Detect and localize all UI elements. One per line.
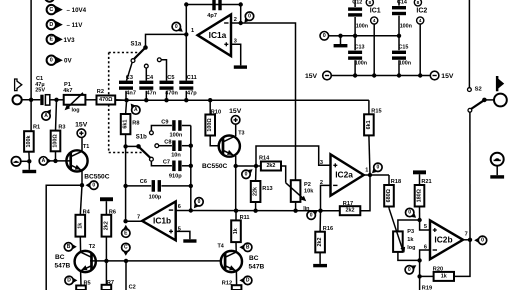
dashed coupling S1 corner	[109, 53, 144, 153]
pin6 wire IC2b	[420, 250, 430, 276]
partial marker cut at top edge	[45, 0, 54, 2]
node A marker at T1 base	[46, 158, 52, 165]
svg-text:100n: 100n	[356, 24, 368, 30]
IC1 pin8 circle	[366, 0, 373, 6]
pin1 wire IC2a output	[364, 174, 370, 176]
node E net label	[47, 35, 75, 44]
wire T2 emitter to R5	[80, 271, 82, 285]
junction C6 left	[123, 184, 127, 188]
junction R20 node	[417, 274, 421, 278]
node 0 marker at R20 node	[409, 265, 416, 271]
svg-text:R15: R15	[371, 109, 381, 115]
svg-text:R12: R12	[222, 280, 232, 286]
svg-text:B: B	[246, 245, 250, 251]
wire R2 to cap bus	[115, 99, 126, 101]
svg-text:IC1b: IC1b	[153, 216, 171, 226]
svg-text:7: 7	[465, 232, 468, 238]
wire IC1a feedback top	[184, 2, 243, 6]
svg-text:IC2: IC2	[416, 8, 427, 15]
terminal -15V left	[305, 71, 331, 80]
svg-text:– 10V4: – 10V4	[67, 7, 87, 14]
svg-text:C12: C12	[352, 0, 362, 6]
wire P3 bottom to pin6 node	[398, 252, 422, 263]
node E marker	[122, 225, 129, 231]
resistor R20 1k	[420, 240, 470, 281]
svg-text:547B: 547B	[249, 263, 265, 270]
svg-text:1: 1	[191, 28, 194, 34]
resistor R14 2k2	[259, 156, 281, 171]
svg-text:3: 3	[320, 160, 323, 166]
potentiometer P1 4k7 log	[63, 82, 85, 113]
svg-text:IC2b: IC2b	[434, 234, 452, 244]
resistor R5	[76, 280, 90, 290]
wire C6 right	[161, 185, 190, 187]
svg-text:25V: 25V	[35, 88, 45, 94]
capacitor C1 47u 25V	[35, 76, 50, 105]
node 0 marker at IC1a pin1	[176, 25, 183, 31]
terminal -15V right	[430, 71, 454, 80]
pin7 wire IC2b output	[463, 239, 470, 241]
node 0 marker at T1 emitter	[86, 182, 92, 189]
svg-text:4n7: 4n7	[126, 91, 136, 97]
svg-text:0: 0	[323, 33, 326, 39]
svg-text:0: 0	[408, 267, 411, 273]
potentiometer P2 10k lin	[291, 180, 314, 212]
svg-text:4k7: 4k7	[63, 88, 72, 94]
svg-text:C8: C8	[164, 140, 171, 146]
wire net A to T1 base	[50, 160, 69, 162]
contact S1b-C9	[150, 126, 172, 135]
junction IC1b pin7	[123, 219, 127, 223]
resistor R7	[102, 261, 114, 290]
wire C6 left	[126, 185, 152, 187]
svg-text:C9: C9	[161, 119, 168, 125]
svg-text:1k: 1k	[407, 237, 414, 243]
svg-text:100p: 100p	[149, 195, 162, 201]
svg-text:C7: C7	[163, 160, 170, 166]
wire input terminal to node	[22, 98, 41, 102]
svg-text:180Ω: 180Ω	[417, 188, 423, 202]
contact S1a-C5	[157, 58, 166, 81]
svg-text:100n: 100n	[400, 24, 412, 30]
svg-text:910p: 910p	[169, 174, 182, 180]
contact S1b-C8	[155, 144, 172, 148]
svg-text:IC2a: IC2a	[335, 170, 353, 180]
wire T1 emitter node left and down	[46, 185, 82, 290]
svg-text:R11: R11	[240, 215, 250, 221]
svg-text:100Ω: 100Ω	[53, 134, 59, 148]
svg-text:100Ω: 100Ω	[207, 118, 213, 132]
svg-text:C5: C5	[167, 75, 174, 81]
svg-text:C: C	[49, 7, 53, 13]
op-amp IC1a	[198, 15, 231, 57]
contact S1b-C7 lever tip	[150, 157, 172, 166]
svg-text:C4: C4	[146, 75, 154, 81]
capacitor C3' 4p7 feedback	[207, 0, 221, 19]
svg-text:10k: 10k	[304, 189, 314, 195]
svg-text:R4: R4	[83, 210, 91, 216]
wire R18 to P3 wiper	[389, 207, 405, 253]
transistor T4 BC547B	[221, 251, 242, 272]
svg-text:R6: R6	[109, 210, 116, 216]
capacitor C7 910p	[163, 160, 182, 180]
svg-text:R2: R2	[97, 89, 104, 95]
contact S1a-C3	[131, 59, 135, 63]
node C net label	[47, 5, 87, 14]
svg-text:C3: C3	[126, 75, 133, 81]
resistor R17 2k2	[321, 175, 371, 215]
svg-text:R19: R19	[422, 285, 432, 290]
svg-text:BC550C: BC550C	[202, 163, 228, 170]
svg-text:100n: 100n	[170, 133, 183, 139]
svg-text:100k: 100k	[26, 135, 32, 147]
svg-text:S1b: S1b	[136, 134, 147, 140]
junction T1 emitter	[80, 183, 84, 187]
rail bar above R21	[413, 170, 426, 174]
pin7 wire IC1b	[126, 220, 143, 222]
svg-text:7: 7	[137, 214, 140, 220]
node A marker at C1 output	[45, 109, 51, 116]
chassis terminal left	[11, 157, 20, 166]
svg-text:100n: 100n	[355, 61, 367, 67]
svg-text:8: 8	[417, 0, 420, 5]
svg-text:6: 6	[424, 245, 427, 251]
svg-text:R18: R18	[391, 179, 401, 185]
contact S2 upper	[468, 88, 472, 92]
capacitor C15 100n	[392, 36, 411, 76]
svg-text:C15: C15	[399, 44, 409, 50]
junction IC2a output	[368, 173, 372, 177]
ground under chassis terminal	[490, 166, 504, 179]
svg-text:log: log	[407, 245, 415, 251]
pin2 wire IC2a	[321, 185, 331, 210]
output arrow symbol	[496, 76, 504, 91]
svg-text:D: D	[67, 278, 71, 284]
svg-text:IC1: IC1	[370, 8, 381, 15]
svg-text:4p7: 4p7	[207, 13, 217, 19]
svg-text:547B: 547B	[55, 262, 71, 269]
transistor T1 BC550C	[66, 150, 87, 171]
svg-text:0V: 0V	[64, 58, 72, 65]
svg-text:P2: P2	[304, 182, 311, 188]
svg-text:3: 3	[234, 39, 237, 45]
svg-text:2: 2	[234, 17, 237, 23]
pin5 wire IC1b to ground	[176, 231, 190, 239]
transistor T2 BC547B	[75, 251, 96, 272]
svg-text:0: 0	[50, 57, 53, 63]
svg-text:47p: 47p	[187, 91, 197, 97]
supply +15V terminal above T3	[229, 108, 242, 124]
minus glyph IC1a	[224, 22, 228, 24]
resistor R13 22k	[251, 166, 273, 211]
capacitor C9 100n	[161, 119, 183, 138]
wire IC1a output right and down to P2	[253, 23, 296, 180]
wire S2 upper	[468, 0, 470, 88]
svg-text:S2: S2	[475, 87, 482, 93]
resistor R3 100R	[51, 100, 66, 161]
wire left vertical to pin1	[185, 5, 187, 35]
svg-text:C11: C11	[187, 75, 197, 81]
svg-text:IC1a: IC1a	[209, 30, 227, 40]
svg-text:D: D	[246, 278, 250, 284]
svg-text:BC550C: BC550C	[84, 174, 110, 181]
0V rail wire	[341, 34, 402, 38]
svg-text:470Ω: 470Ω	[99, 97, 113, 103]
svg-text:– 11V: – 11V	[67, 22, 84, 29]
junction R13 top node	[254, 164, 258, 168]
resistor R1 100k	[24, 100, 40, 162]
node 0 marker at IC2a output	[372, 167, 379, 174]
capacitor C4 47n	[139, 75, 156, 96]
node 0 marker at IC2a pin2 node	[311, 210, 318, 216]
svg-text:R17: R17	[343, 201, 353, 207]
svg-text:log: log	[72, 108, 80, 114]
resistor R16 2k2	[315, 211, 333, 253]
svg-text:R20: R20	[433, 267, 443, 273]
wire contact to C3	[127, 62, 133, 80]
wire T1 emitter to R4	[80, 185, 82, 215]
svg-text:8: 8	[369, 0, 372, 5]
wire 15V to T1 collector	[81, 138, 83, 152]
svg-text:P3: P3	[407, 229, 414, 235]
svg-text:4: 4	[373, 18, 376, 23]
node 0 marker at IC1b pin6	[194, 202, 200, 209]
wire R4 to T2 collector	[79, 237, 81, 252]
svg-text:2k2: 2k2	[317, 238, 323, 247]
junction IC1b pin6	[189, 208, 193, 212]
svg-text:6k1: 6k1	[123, 120, 129, 129]
resistor R12	[222, 280, 242, 290]
svg-text:0: 0	[175, 24, 178, 30]
wire 15V to T3 collector	[235, 124, 237, 136]
ground at 0V rail	[340, 36, 342, 44]
node D marker at T4 emitter	[239, 277, 245, 284]
potentiometer P3 1k log	[393, 229, 415, 252]
svg-text:A: A	[42, 158, 46, 164]
pin6 wire IC1b to node	[176, 210, 191, 212]
pin5 wire IC2b	[420, 220, 430, 230]
svg-text:15V: 15V	[229, 108, 242, 115]
svg-text:22k: 22k	[253, 187, 259, 196]
svg-text:2k2: 2k2	[266, 163, 275, 169]
svg-text:0: 0	[248, 13, 251, 19]
svg-text:R16: R16	[323, 226, 333, 232]
svg-text:15V: 15V	[441, 73, 454, 80]
plus glyph IC1a	[224, 43, 228, 45]
svg-text:0: 0	[245, 172, 248, 178]
wire emitter node to R14	[236, 165, 261, 167]
junction R8 bottom S1b	[123, 144, 127, 148]
wire IC1a output up to feedback	[240, 5, 242, 24]
ground IC1a pin3	[234, 65, 247, 68]
svg-text:6: 6	[178, 204, 181, 210]
wire chassis to ground node	[21, 159, 32, 163]
switch S1a	[131, 42, 148, 59]
svg-text:0: 0	[92, 182, 95, 188]
junction R13 bottom	[253, 209, 257, 213]
junction IC2b output	[468, 238, 472, 242]
plus glyph IC2a	[333, 164, 337, 166]
node 0 marker at T3 emitter node	[246, 169, 253, 175]
wire S1a common up to IC1a input	[146, 34, 187, 47]
node 0 marker at IC2b pin5 node	[409, 211, 416, 217]
svg-text:1k: 1k	[233, 228, 239, 234]
wire T2 base line to T4 base	[90, 259, 221, 263]
node 0 marker at IC2b output	[474, 237, 480, 244]
cap bank bus wire	[115, 91, 369, 103]
svg-text:A: A	[44, 113, 48, 119]
chassis terminal right	[491, 153, 504, 166]
resistor R8 6k1	[121, 100, 140, 146]
op-amp IC2b	[430, 220, 463, 259]
minus glyph IC2a	[333, 184, 337, 186]
capacitor C8 10n	[164, 140, 181, 159]
resistor R10 100R	[205, 100, 221, 146]
resistor R15 6k1	[364, 100, 381, 175]
IC1 pin4 circle	[371, 17, 378, 76]
wire S2 lower to IC2b output	[469, 112, 471, 240]
IC2 pin8 circle	[414, 0, 421, 6]
node 0 marker at IC1a output	[244, 16, 250, 23]
svg-text:C6: C6	[140, 179, 147, 185]
op-amp IC1b	[142, 202, 176, 241]
svg-text:R3: R3	[58, 125, 65, 131]
wire contact to C4	[145, 68, 147, 81]
junction R3 bottom at T1 base	[53, 159, 57, 163]
capacitor C14 100n	[392, 0, 412, 36]
capacitor C3 4n7	[119, 75, 136, 96]
svg-text:BC: BC	[55, 254, 65, 261]
ground under R1	[28, 161, 30, 170]
svg-text:R1: R1	[33, 125, 40, 131]
svg-text:47n: 47n	[147, 91, 157, 97]
wire cap column right	[182, 126, 193, 211]
svg-text:15V: 15V	[75, 121, 88, 128]
svg-text:T1: T1	[83, 144, 89, 150]
terminal 0V	[320, 32, 341, 41]
wire input column up	[30, 0, 32, 100]
wire T3 emitter down to feedback node	[234, 156, 238, 211]
pin3 wire IC1a	[231, 44, 241, 65]
resistor R18 680R	[370, 175, 401, 207]
wire T1 emitter down	[81, 171, 83, 186]
resistor R2 470R	[97, 89, 116, 104]
node A marker at R8 top	[131, 104, 137, 111]
plus glyph IC1b	[169, 230, 173, 232]
junction IC2a pin2 node	[318, 209, 322, 213]
svg-text:0: 0	[408, 210, 411, 216]
svg-text:6k1: 6k1	[366, 120, 372, 129]
minus glyph IC2b	[433, 249, 437, 251]
capacitor C6 100p	[140, 179, 162, 200]
svg-text:0: 0	[198, 199, 201, 205]
capacitor C12 100n	[348, 0, 368, 36]
svg-text:10n: 10n	[171, 152, 181, 158]
plus glyph IC2b	[433, 229, 437, 231]
contact S1a-C4	[144, 64, 148, 68]
wire IC1b pin6 node to IC2a pin2 node	[191, 210, 321, 212]
resistor R4 1k	[76, 210, 91, 237]
junction IC1a pin1	[184, 32, 188, 36]
svg-text:100n: 100n	[399, 61, 411, 67]
node 0 net label	[47, 56, 73, 65]
switch S2 lever	[468, 98, 494, 113]
op-amp IC2a	[331, 154, 364, 195]
wire P2 bottom to node	[293, 202, 297, 213]
resistor R11 1k	[231, 211, 249, 252]
svg-text:E: E	[49, 37, 53, 43]
svg-text:2k2: 2k2	[103, 221, 109, 230]
svg-text:S1a: S1a	[131, 42, 142, 48]
node D marker at T2 emitter	[72, 277, 78, 284]
svg-text:15V: 15V	[305, 73, 318, 80]
svg-text:R7: R7	[107, 280, 114, 286]
negative 15V rail	[331, 73, 430, 77]
resistor R6 2k2	[102, 201, 116, 261]
svg-text:0: 0	[377, 165, 380, 171]
svg-text:1V3: 1V3	[64, 37, 76, 44]
minus glyph IC1b	[169, 209, 173, 211]
svg-text:C14: C14	[397, 0, 407, 6]
wire P1 to R2	[85, 99, 96, 101]
svg-text:C13: C13	[355, 44, 365, 50]
svg-text:T3: T3	[238, 131, 244, 137]
svg-text:D: D	[49, 22, 53, 28]
node C marker	[122, 250, 129, 256]
svg-text:0: 0	[310, 212, 313, 218]
node B marker at T2 collector	[71, 243, 77, 250]
svg-text:R14: R14	[259, 156, 270, 162]
capacitor C5 470n	[160, 75, 179, 96]
resistor R21 180R	[415, 174, 432, 220]
svg-text:R21: R21	[421, 179, 431, 185]
resistor R19 wire	[420, 276, 432, 290]
svg-text:680Ω: 680Ω	[386, 188, 392, 202]
svg-text:T4: T4	[218, 244, 224, 250]
input terminal arrow	[15, 79, 22, 91]
output terminal	[494, 94, 507, 107]
svg-text:R8: R8	[132, 121, 139, 127]
svg-text:2: 2	[320, 180, 323, 186]
transistor T3 BC550C	[219, 136, 240, 157]
svg-text:5: 5	[424, 224, 427, 230]
svg-text:4: 4	[419, 18, 422, 23]
svg-text:C: C	[124, 245, 128, 251]
junction IC2b pin5 node	[417, 218, 421, 222]
capacitor C11 47p	[179, 75, 197, 96]
svg-text:R13: R13	[262, 186, 272, 192]
svg-text:C2: C2	[129, 285, 136, 290]
pin2 wire IC1a output	[231, 21, 253, 25]
wire P3 top to pin5 node	[398, 220, 420, 231]
wire node up and right to IC2a pin3	[256, 146, 331, 166]
svg-text:T2: T2	[89, 244, 95, 250]
svg-text:1k: 1k	[77, 223, 83, 229]
rail bar above R6	[100, 197, 113, 201]
wire C11 top to IC1a input node	[185, 34, 187, 80]
ground IC1b pin5	[183, 239, 196, 242]
svg-text:2k2: 2k2	[346, 208, 355, 214]
svg-text:0: 0	[481, 238, 484, 244]
wire T4 emitter to R12	[235, 271, 237, 285]
svg-text:1k: 1k	[441, 273, 447, 279]
switch S1b	[126, 134, 151, 157]
node B marker at T4 collector	[239, 244, 245, 251]
supply +15V terminal above T1	[75, 121, 88, 137]
IC2 pin4 circle	[417, 17, 424, 76]
node D net label	[47, 20, 84, 29]
ground under R16	[319, 252, 321, 264]
